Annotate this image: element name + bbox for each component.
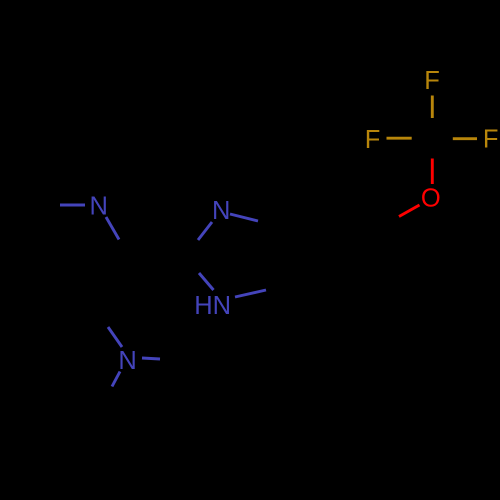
bond HN-Cspiro half (up-left from HN)	[199, 273, 214, 290]
bond N4 right half	[142, 358, 160, 359]
svg-text:N: N	[89, 193, 107, 221]
bond N1-C2 half (down-right from N1)	[106, 217, 119, 240]
svg-text:N: N	[212, 197, 230, 225]
bond N2-C7a half (right from N2)	[230, 214, 258, 221]
svg-text:F: F	[483, 126, 499, 154]
svg-text:HN: HN	[194, 292, 231, 320]
svg-text:O: O	[421, 185, 441, 213]
svg-text:F: F	[365, 126, 381, 154]
bond Fleft-C half (horizontal gold)	[387, 137, 412, 140]
svg-text:N: N	[118, 347, 136, 375]
bond N4 down-left half	[112, 372, 120, 387]
bond N4 up-left half (piperidine N to ring C)	[108, 327, 122, 347]
bond N2-Cspiro half (down-left from N2)	[198, 222, 212, 240]
bond HN-C3a half (right from HN)	[235, 290, 266, 297]
bond N1-CH3 (pyridine N to methyl, half near N)	[60, 204, 85, 207]
svg-text:F: F	[424, 67, 440, 95]
bond Fright-C half (horizontal gold)	[453, 137, 477, 140]
bond Ftop-C half (vertical gold)	[431, 96, 434, 119]
bond O-benzo half (diagonal red, down-left of O)	[399, 205, 420, 217]
bond O-CF3 half (vertical red above O)	[431, 159, 434, 185]
